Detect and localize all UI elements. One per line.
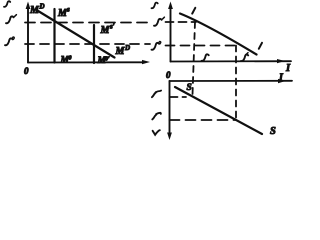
right graph dashed level line r1: [166, 21, 197, 23]
svg-text:M: M: [29, 5, 40, 16]
svg-text:S: S: [187, 83, 192, 93]
axis quantity label r' at I0: [241, 55, 248, 62]
bottom graph label Y1 superscript flag: [156, 91, 161, 93]
svg-text:S: S: [270, 126, 276, 137]
axis quantity label r at I1: [202, 54, 209, 61]
right graph horizontal axis (I): [171, 60, 292, 62]
right graph label r1: [154, 19, 162, 26]
left graph vertical axis arrowhead: [26, 2, 31, 10]
shifted money supply line Ms': [93, 25, 95, 63]
right graph label r1 superscript: [163, 17, 165, 19]
bottom graph label Y1: [152, 92, 156, 97]
svg-text:0: 0: [24, 66, 29, 76]
svg-text:M: M: [100, 25, 111, 36]
left graph horizontal axis (M): [28, 61, 144, 63]
left graph dashed level line r0: [25, 43, 150, 45]
left graph label r1: [6, 16, 14, 23]
axis quantity label r' prime mark: [246, 53, 248, 55]
svg-text:M: M: [115, 46, 126, 57]
money demand curve MD: [37, 10, 115, 58]
investment demand curve I: [180, 14, 257, 55]
svg-text:s: s: [66, 6, 70, 14]
left graph horizontal axis arrowhead: [142, 60, 150, 64]
svg-text:s′: s′: [109, 23, 115, 31]
investment curve label I end: [259, 43, 262, 49]
bottom graph vertical axis (Y, pointing down): [169, 81, 171, 134]
svg-text:0: 0: [166, 70, 171, 80]
right graph dashed level line r0: [166, 45, 237, 47]
saving line S: [175, 87, 262, 134]
bottom graph axis label Y: [153, 130, 160, 135]
investment curve label I top: [192, 8, 195, 14]
bottom graph horizontal axis (I): [170, 80, 293, 82]
right graph label r0 superscript: [159, 41, 161, 43]
bottom graph dashed level line Y1: [170, 96, 187, 98]
bottom graph label Y0 superscript flag: [156, 113, 161, 114]
left graph label r0: [5, 38, 13, 45]
left graph axis label r: [4, 1, 10, 7]
left graph dashed level line r1: [25, 22, 150, 24]
left graph label r0 superscript: [13, 37, 15, 39]
bottom graph horizontal axis arrowhead: [278, 79, 286, 83]
bottom graph vertical axis arrowhead (down): [167, 133, 172, 141]
bottom graph dashed level line Y0: [170, 119, 237, 121]
left graph vertical axis (r): [27, 7, 29, 63]
svg-text:0′: 0′: [105, 57, 110, 63]
right graph vertical axis arrowhead: [168, 2, 173, 10]
vertical dashed line at I1 (through both right graphs): [193, 22, 196, 95]
vertical dashed line at I0' (through both right graphs): [235, 46, 237, 120]
left graph label r1 superscript: [15, 15, 17, 17]
svg-text:D: D: [39, 3, 45, 11]
svg-text:0: 0: [69, 56, 72, 62]
right graph horizontal axis arrowhead: [277, 59, 285, 63]
right graph axis label r: [152, 3, 158, 9]
right graph label r0: [152, 43, 160, 50]
money supply line Ms: [53, 9, 55, 63]
svg-text:I: I: [285, 63, 291, 74]
right graph vertical axis (r): [170, 7, 172, 62]
bottom graph label Y0: [152, 115, 156, 120]
svg-text:D: D: [124, 44, 130, 52]
